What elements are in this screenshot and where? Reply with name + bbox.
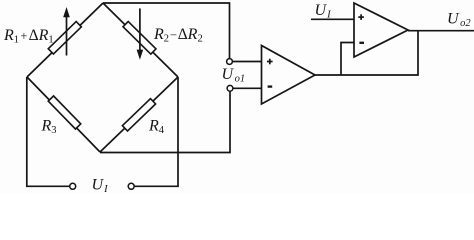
svg-text:R4: R4	[148, 118, 165, 137]
op-amp U1 plus sign	[267, 59, 273, 65]
arrow through R1 (pointing up)	[63, 7, 70, 56]
op-amp U2 plus sign	[358, 14, 364, 20]
svg-text:R1+ΔR1: R1+ΔR1	[3, 27, 54, 46]
svg-text:UI: UI	[315, 2, 332, 21]
op-amp U1 minus sign	[268, 85, 273, 87]
wire bridge bottom-right edge	[100, 77, 178, 152]
wire U_o1 upper terminal to op-amp + input	[233, 61, 262, 63]
wire U_I input to op-amp U2 + input	[311, 18, 354, 20]
arrow through R2 (pointing down)	[137, 8, 144, 59]
svg-text:R3: R3	[41, 118, 57, 137]
wire U_o1 lower terminal to op-amp - input	[233, 87, 262, 89]
resistor R3	[48, 96, 80, 129]
resistor R2 (R2-dR2)	[123, 21, 156, 54]
wire op-amp U2 output U_o2	[408, 30, 474, 32]
svg-text:Uo2: Uo2	[447, 11, 471, 30]
wire top rail to U_o1 upper terminal	[103, 3, 230, 58]
terminal circle upper U_o1	[227, 59, 233, 65]
wire bridge top-left edge	[27, 3, 103, 77]
wire bridge top-right edge	[103, 3, 178, 77]
terminal circle lower U_o1	[227, 85, 233, 91]
svg-text:UI: UI	[92, 177, 109, 195]
wire left vertex down to bottom rail	[27, 77, 70, 186]
wire bridge bottom vertex to U_o1 lower terminal	[100, 91, 230, 152]
svg-text:R2−ΔR2: R2−ΔR2	[153, 26, 203, 45]
wire bottom rail right segment up to right vertex	[134, 77, 178, 186]
op-amp U2 triangle	[354, 3, 408, 57]
resistor R4	[122, 99, 155, 131]
terminal circle bottom-right U_I	[128, 183, 134, 189]
op-amp U2 minus sign	[359, 42, 364, 44]
svg-text:Uo1: Uo1	[222, 66, 246, 85]
wire bridge bottom-left edge	[27, 77, 100, 152]
terminal circle bottom-left U_I	[70, 183, 76, 189]
wire op-amp U1 output to feedback rail	[315, 31, 418, 75]
resistor R1 (R1+dR1)	[48, 22, 81, 54]
op-amp U1 triangle	[262, 46, 316, 105]
wire op-amp U2 - input feedback	[341, 43, 354, 76]
